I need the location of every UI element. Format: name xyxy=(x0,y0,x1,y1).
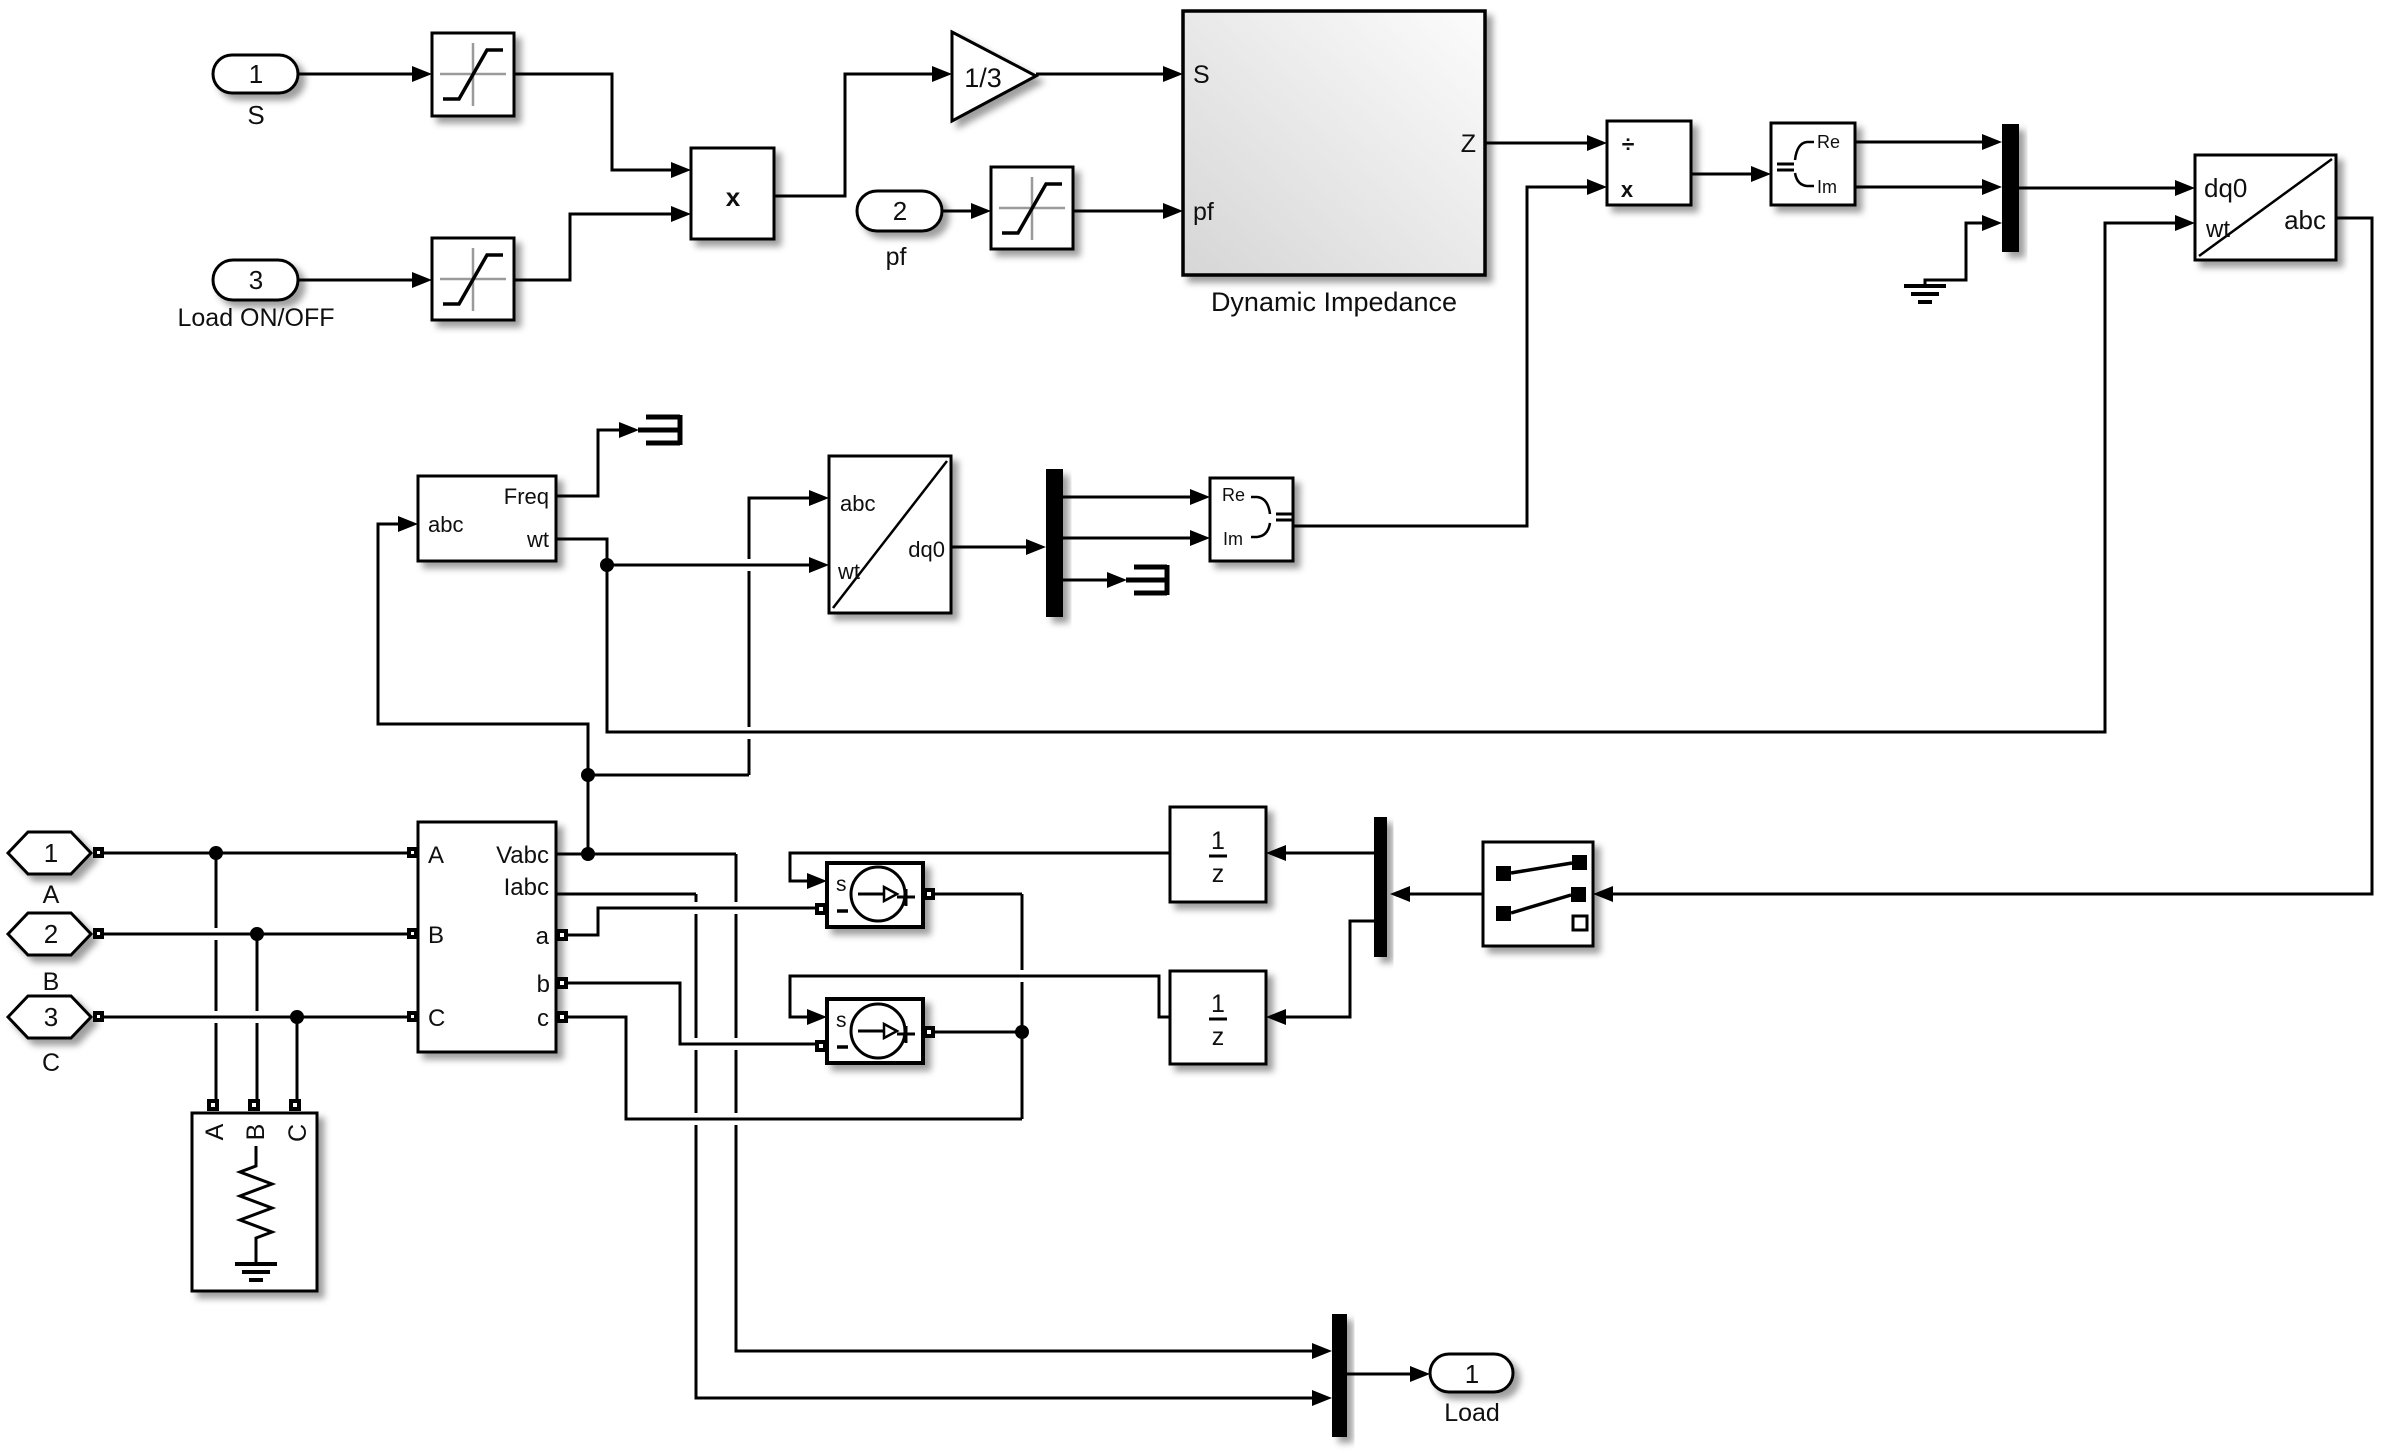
svg-text:Im: Im xyxy=(1223,529,1243,549)
svg-text:dq0: dq0 xyxy=(908,537,945,562)
real-imag to complex block xyxy=(1210,478,1293,561)
ground xyxy=(1904,286,1946,302)
ground inside load xyxy=(235,1264,277,1280)
wire inport3 to saturation2 xyxy=(298,272,432,288)
node sources plus junction xyxy=(1015,1025,1029,1039)
PLL block (abc Freq wt) xyxy=(418,476,556,561)
svg-text:a: a xyxy=(536,923,550,950)
label S xyxy=(247,100,264,130)
port square measurement a xyxy=(556,929,568,941)
mux (bottom, to Load outport) xyxy=(1332,1314,1347,1437)
arrow source1 s input xyxy=(807,873,827,889)
svg-text:C: C xyxy=(428,1005,445,1032)
svg-text:Z: Z xyxy=(1461,130,1476,158)
svg-text:wt: wt xyxy=(837,559,860,584)
svg-text:3: 3 xyxy=(44,1002,58,1032)
controlled current source 2 xyxy=(827,999,923,1063)
label Load xyxy=(1444,1399,1500,1427)
wire saturation2 to product input 2 xyxy=(514,206,691,280)
port square source1 minus xyxy=(815,903,827,915)
three-phase series RLC load block xyxy=(192,1113,317,1291)
node feedback junction xyxy=(581,768,595,782)
svg-text:Iabc: Iabc xyxy=(504,874,549,901)
port square load A xyxy=(207,1099,219,1111)
saturation block Saturation1 xyxy=(432,238,514,320)
controlled current source 1 xyxy=(827,863,923,927)
svg-text:B: B xyxy=(242,1124,270,1141)
label pf xyxy=(886,243,907,271)
port square source2 minus xyxy=(815,1040,827,1052)
port square source1 plus xyxy=(923,888,935,900)
connection port 2 (B) xyxy=(8,913,104,955)
svg-text:dq0: dq0 xyxy=(2204,173,2247,203)
node phase A junction xyxy=(209,846,223,860)
wire gain to Dynamic Impedance S input xyxy=(1036,66,1183,82)
svg-text:Freq: Freq xyxy=(504,484,549,509)
wire demux to real-imag Im input xyxy=(1063,530,1210,546)
port square measurement B xyxy=(407,928,418,939)
svg-text:abc: abc xyxy=(840,491,875,516)
wire complex output to divide x input xyxy=(1293,179,1607,526)
svg-text:wt: wt xyxy=(2205,216,2230,243)
three-phase V-I measurement block xyxy=(418,822,556,1052)
demux (from switch) xyxy=(1374,817,1387,957)
node phase C junction xyxy=(290,1010,304,1024)
wire inport2 to saturation3 xyxy=(942,203,991,219)
wire phase A down to load xyxy=(215,853,218,1099)
svg-text:Vabc: Vabc xyxy=(496,842,549,869)
svg-text:s: s xyxy=(836,1009,847,1032)
port square measurement b xyxy=(556,977,568,989)
wire dq0-abc output down to switch input xyxy=(1593,218,2372,902)
product block x xyxy=(691,148,774,239)
node wt junction xyxy=(600,558,614,572)
port square load B xyxy=(248,1099,260,1111)
svg-text:Load: Load xyxy=(1444,1399,1500,1427)
wire switch to demux xyxy=(1390,886,1483,902)
demux (after abc-dq0) xyxy=(1046,469,1063,617)
wire source2 plus to node xyxy=(935,1031,1022,1034)
svg-text:z: z xyxy=(1212,1023,1225,1051)
wire saturation1 to product input 1 xyxy=(514,74,691,178)
svg-text:A: A xyxy=(201,1123,229,1140)
svg-text:abc: abc xyxy=(2284,205,2326,235)
svg-text:1: 1 xyxy=(44,838,58,868)
svg-text:x: x xyxy=(726,182,741,212)
wire demux to terminator xyxy=(1063,572,1127,588)
wire sources plus vertical xyxy=(1021,894,1024,1119)
wire phase C xyxy=(104,1016,407,1019)
wire wt junction to abc-dq0 wt input xyxy=(607,557,829,573)
arrow source2 s input xyxy=(807,1009,827,1025)
node phase B junction xyxy=(250,927,264,941)
svg-text:c: c xyxy=(537,1005,549,1032)
svg-text:A: A xyxy=(43,881,60,909)
wire demux to unit delay 2 input xyxy=(1266,921,1374,1025)
svg-text:B: B xyxy=(428,922,444,949)
svg-text:Re: Re xyxy=(1817,132,1840,152)
dq0 to abc transform block xyxy=(2195,155,2336,260)
wire divide output to complex to real-imag xyxy=(1691,166,1771,182)
wire wt junction down and east to dq0-abc wt input xyxy=(607,215,2195,732)
port square source2 plus xyxy=(923,1026,935,1038)
wire c to sources plus node xyxy=(568,1017,1022,1119)
wire demux to real-imag Re input xyxy=(1063,489,1210,505)
svg-text:B: B xyxy=(43,968,60,996)
label Load ON/OFF xyxy=(178,304,335,332)
inport 3 (Load ON/OFF) xyxy=(213,260,298,300)
wire Iabc to bottom mux xyxy=(556,894,1332,1406)
manual switch block xyxy=(1483,842,1593,946)
label A xyxy=(43,881,60,909)
wire Vabc feedback to PLL abc input xyxy=(378,516,588,854)
port square measurement A xyxy=(407,847,418,858)
subsystem Dynamic Impedance xyxy=(1183,11,1485,275)
wire phase C down to load xyxy=(296,1017,299,1099)
wire PLL Freq output to terminator xyxy=(556,422,639,496)
svg-text:abc: abc xyxy=(428,512,463,537)
port square load C xyxy=(289,1099,301,1111)
svg-text:2: 2 xyxy=(893,196,907,226)
svg-text:C: C xyxy=(42,1049,60,1077)
svg-text:Im: Im xyxy=(1817,177,1837,197)
wire saturation3 to Dynamic Impedance pf input xyxy=(1073,203,1183,219)
svg-text:Dynamic Impedance: Dynamic Impedance xyxy=(1211,287,1457,317)
resistor inside load xyxy=(240,1146,272,1262)
wire unit delay 1 output to source1 s xyxy=(790,853,1170,881)
terminator (demux third output) xyxy=(1126,565,1167,595)
svg-text:÷: ÷ xyxy=(1622,131,1635,157)
mux Mux1 (top right) xyxy=(2002,124,2019,252)
connection port 3 (C) xyxy=(8,996,104,1038)
inport 1 (S) xyxy=(213,55,298,93)
unit delay 1 (1/z) xyxy=(1170,807,1266,902)
svg-text:Re: Re xyxy=(1222,485,1245,505)
svg-text:S: S xyxy=(1193,61,1210,89)
svg-text:wt: wt xyxy=(526,527,549,552)
svg-text:Load ON/OFF: Load ON/OFF xyxy=(178,304,335,332)
saturation block Saturation xyxy=(432,33,514,116)
wire ground to mux xyxy=(1925,215,2002,285)
wire PLL wt output to junction xyxy=(556,539,607,565)
svg-text:s: s xyxy=(836,873,847,896)
svg-text:1: 1 xyxy=(1211,990,1225,1018)
terminator (Freq) xyxy=(638,415,680,445)
wire demux to unit delay 1 input xyxy=(1266,845,1374,861)
wire Z output to divide block xyxy=(1485,135,1607,151)
svg-text:S: S xyxy=(247,100,264,130)
outport 1 (Load) xyxy=(1430,1354,1513,1392)
label B xyxy=(43,968,60,996)
svg-text:C: C xyxy=(284,1124,312,1142)
svg-text:pf: pf xyxy=(1193,198,1214,226)
wire phase B down to load xyxy=(256,934,259,1099)
port square measurement c xyxy=(556,1011,568,1023)
svg-text:2: 2 xyxy=(44,919,58,949)
wire phase A xyxy=(104,852,407,855)
wire phase B xyxy=(104,933,407,936)
wire mux to dq0-abc input xyxy=(2019,180,2195,196)
wire inport1 to saturation1 xyxy=(298,66,432,82)
gain 1/3 xyxy=(952,32,1036,121)
wire unit delay 2 output to source2 s xyxy=(790,976,1170,1017)
wire Re output to mux xyxy=(1855,134,2002,150)
connection port 1 (A) xyxy=(8,832,104,874)
wire a to current source 1 minus xyxy=(568,908,815,935)
unit delay 2 (1/z) xyxy=(1170,971,1266,1064)
svg-text:3: 3 xyxy=(249,265,263,295)
wire source1 plus to node xyxy=(935,893,1022,896)
node Vabc junction xyxy=(581,847,595,861)
wire Vabc to bottom mux xyxy=(556,854,1332,1359)
label C xyxy=(42,1049,60,1077)
saturation block Saturation2 xyxy=(991,167,1073,249)
svg-text:1: 1 xyxy=(1211,827,1225,855)
svg-text:b: b xyxy=(537,971,550,998)
svg-text:z: z xyxy=(1212,860,1225,888)
svg-text:A: A xyxy=(428,842,444,869)
svg-text:pf: pf xyxy=(886,243,907,271)
wire Im output to mux xyxy=(1855,179,2002,195)
wire bottom mux to outport xyxy=(1347,1366,1430,1382)
svg-text:1: 1 xyxy=(249,59,263,89)
wire product to gain 1/3 xyxy=(774,66,952,196)
svg-text:1/3: 1/3 xyxy=(964,63,1002,93)
port square measurement C xyxy=(407,1011,418,1022)
abc to dq0 transform block xyxy=(829,456,951,613)
complex to real-imag block (Re Im) xyxy=(1771,123,1855,205)
wire b to current source 2 minus xyxy=(568,983,815,1044)
wire junction to abc-dq0 abc input xyxy=(588,490,829,775)
label Dynamic Impedance xyxy=(1211,287,1457,317)
svg-text:1: 1 xyxy=(1465,1359,1479,1389)
svg-text:x: x xyxy=(1621,177,1634,202)
inport 2 (pf) xyxy=(857,191,942,231)
wire abc-dq0 output to demux xyxy=(951,539,1046,555)
divide block xyxy=(1607,121,1691,205)
